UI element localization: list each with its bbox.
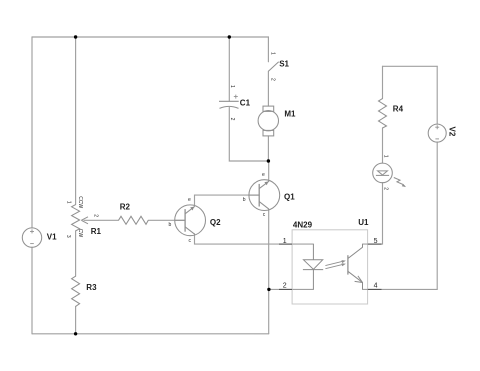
svg-text:1: 1 xyxy=(229,85,235,88)
svg-text:1: 1 xyxy=(65,201,71,204)
transistor Q1 xyxy=(249,180,280,211)
svg-text:b: b xyxy=(243,197,246,203)
wire left vertical lower xyxy=(31,247,33,333)
wire Q2 emitter to Q1 base xyxy=(195,195,260,206)
wire pot wiper to R2 xyxy=(84,219,119,221)
U1 internal LED xyxy=(303,244,323,289)
node junction motor bottom xyxy=(267,159,270,162)
svg-text:4: 4 xyxy=(374,282,378,289)
wire U1 pin5 to LED xyxy=(363,183,383,244)
wire V2 lower xyxy=(436,142,438,289)
svg-text:S1: S1 xyxy=(279,60,289,69)
wire V2 upper xyxy=(436,66,438,124)
svg-text:R3: R3 xyxy=(86,283,97,292)
LED D1 xyxy=(373,163,406,187)
wire cap branch upper xyxy=(228,37,230,101)
wire R3 to bottom xyxy=(75,306,77,333)
svg-text:R2: R2 xyxy=(120,203,131,212)
svg-text:R4: R4 xyxy=(393,105,404,114)
wire pot to R3 xyxy=(75,231,77,276)
svg-text:e: e xyxy=(188,197,191,203)
wire R4 to top xyxy=(382,66,384,98)
resistor R3 xyxy=(72,276,80,306)
optocoupler U1 xyxy=(292,230,368,304)
wire Q1 collector down xyxy=(268,209,270,334)
wire pot branch upper xyxy=(75,37,77,205)
wire bottom horizontal xyxy=(32,333,269,335)
wire R2 to Q2 base xyxy=(148,219,185,221)
svg-text:e: e xyxy=(262,172,265,178)
svg-text:M1: M1 xyxy=(284,110,296,119)
U1 light arrow 1 xyxy=(325,261,343,265)
svg-text:1: 1 xyxy=(270,52,276,55)
wire top right horizontal xyxy=(383,65,438,67)
node junction pin2 xyxy=(267,288,270,291)
wire S1 to M1 xyxy=(267,71,269,106)
svg-text:Q1: Q1 xyxy=(284,193,295,202)
voltage source V2 xyxy=(428,124,446,142)
wire node to Q1 emitter xyxy=(268,161,270,181)
wire cap branch lower xyxy=(229,108,268,162)
resistor R4 xyxy=(379,99,387,129)
U1 pin stubs xyxy=(279,244,382,289)
svg-text:1: 1 xyxy=(383,155,389,158)
svg-text:2: 2 xyxy=(92,214,98,217)
svg-text:2: 2 xyxy=(269,78,275,81)
capacitor C1 xyxy=(219,95,239,109)
wire top horizontal xyxy=(32,36,268,38)
potentiometer R1 xyxy=(72,205,88,231)
svg-text:b: b xyxy=(169,222,172,228)
transistor Q2 xyxy=(175,205,206,236)
U1 phototransistor xyxy=(348,244,363,289)
resistor R2 xyxy=(119,216,149,224)
svg-text:U1: U1 xyxy=(358,218,369,227)
svg-text:V1: V1 xyxy=(47,233,57,242)
svg-text:2: 2 xyxy=(283,282,287,289)
U1 light arrow 2 xyxy=(325,264,343,268)
svg-text:2: 2 xyxy=(383,187,389,190)
motor M1 xyxy=(258,106,278,136)
svg-text:CCW: CCW xyxy=(77,196,83,208)
svg-text:V2: V2 xyxy=(448,127,457,137)
voltage source V1 xyxy=(22,228,41,247)
svg-text:CW: CW xyxy=(77,229,83,238)
wire node to U1 pin2 xyxy=(269,288,314,290)
svg-text:4N29: 4N29 xyxy=(293,221,313,230)
wire M1 to node xyxy=(267,136,269,161)
svg-text:Q2: Q2 xyxy=(210,218,221,227)
svg-text:2: 2 xyxy=(229,118,235,121)
node junction bottom pot xyxy=(74,332,77,335)
wire left vertical upper xyxy=(31,37,33,228)
node junction top cap xyxy=(228,35,231,38)
switch S1 xyxy=(268,62,278,72)
wire S1 branch top xyxy=(267,37,269,62)
wire LED to R4 xyxy=(382,128,384,163)
svg-text:3: 3 xyxy=(65,235,71,238)
svg-text:C1: C1 xyxy=(240,99,251,108)
wire Q2 collector to U1 pin1 xyxy=(195,234,314,244)
svg-text:R1: R1 xyxy=(91,227,102,236)
wire U1 pin4 to V2 xyxy=(363,288,438,290)
node junction top pot xyxy=(74,35,77,38)
